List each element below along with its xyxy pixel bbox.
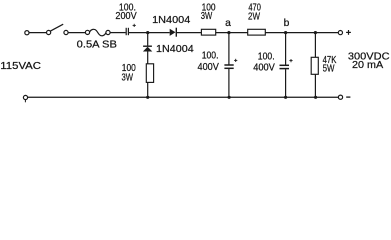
wire top rail segment: D1 to resistor R1 — [177, 32, 202, 34]
capacitor C3 polarity plus mark — [289, 59, 292, 62]
switch S1 blade — [50, 24, 63, 31]
node junction bottom of a branch — [228, 96, 231, 99]
node a junction dot — [227, 31, 230, 34]
node junction bottom of 47K branch — [314, 96, 317, 99]
wire node b branch upper — [285, 33, 287, 65]
capacitor C1 left plate — [125, 28, 127, 35]
fuse F1 left contact — [85, 30, 89, 34]
wire shunt branch lower — [147, 83, 149, 98]
svg-text:2W: 2W — [248, 11, 260, 22]
wire top rail segment: C1 through junction to diode D1 — [129, 32, 170, 34]
diode D2 shunt triangle (points up) — [143, 47, 152, 52]
capacitor C1 polarity plus mark — [133, 24, 136, 27]
label - output polarity — [346, 96, 350, 98]
capacitor C3 bottom plate — [280, 68, 290, 70]
svg-text:3W: 3W — [122, 73, 134, 84]
stub below bottom input terminal — [24, 100, 26, 103]
wire bottom rail — [28, 96, 339, 98]
wire top rail segment: R1 to R2 through node a — [216, 32, 248, 34]
node b junction dot — [284, 31, 287, 34]
terminal AC input top (open circle) — [25, 31, 29, 35]
svg-text:115VAC: 115VAC — [0, 61, 41, 72]
wire top rail segment: fuse to capacitor C1 — [110, 32, 126, 34]
svg-text:1N4004: 1N4004 — [156, 44, 194, 55]
node junction top of 47K branch — [314, 31, 317, 34]
svg-text:100.: 100. — [258, 52, 275, 63]
capacitor C3 top plate — [280, 64, 290, 66]
svg-text:20 mA: 20 mA — [352, 60, 383, 71]
wire 47K branch upper — [314, 33, 316, 58]
switch S1 throw contact — [64, 30, 68, 34]
wire top rail segment: switch to fuse — [68, 32, 85, 34]
svg-text:400V: 400V — [253, 63, 275, 74]
wire node a branch lower — [228, 69, 230, 97]
svg-text:b: b — [284, 18, 290, 29]
diode D1 cathode bar — [175, 28, 177, 37]
terminal + output (open circle) — [338, 30, 342, 34]
fuse F1 element (s-curve) — [90, 29, 106, 35]
svg-text:400V: 400V — [198, 62, 220, 73]
capacitor C2 bottom plate — [224, 67, 233, 69]
switch S1 pole contact — [47, 30, 51, 34]
svg-text:3W: 3W — [201, 11, 213, 22]
wire node b branch lower — [285, 69, 287, 97]
wire 47K branch lower — [314, 74, 316, 97]
wire shunt branch upper — [147, 33, 149, 46]
svg-text:0.5A SB: 0.5A SB — [77, 40, 117, 51]
svg-text:a: a — [225, 18, 231, 29]
resistor R1 100 3W (series box) — [201, 29, 215, 35]
capacitor C1 right plate — [127, 28, 129, 35]
svg-text:200V: 200V — [115, 11, 136, 22]
node junction top of shunt branch — [146, 31, 149, 34]
wire top rail segment: R2 to + output terminal — [265, 32, 338, 34]
wire node a branch upper — [228, 33, 230, 65]
terminal AC input bottom (open circle) — [23, 95, 27, 99]
diode D2 1N4004 shunt cathode bar — [143, 45, 152, 47]
node junction bottom of shunt branch — [146, 96, 149, 99]
svg-text:100.: 100. — [202, 51, 219, 62]
label + output polarity — [346, 30, 351, 35]
diode D1 1N4004 series triangle — [170, 29, 176, 36]
wire shunt branch middle — [147, 52, 149, 65]
wire top rail segment: input terminal to switch — [29, 32, 46, 34]
resistor R3 100 3W (shunt, vertical box) — [146, 64, 153, 83]
resistor R4 47K 5W (vertical box) — [311, 57, 318, 74]
fuse F1 right contact — [106, 30, 110, 34]
terminal - output (open circle) — [338, 95, 342, 99]
node junction bottom of b branch — [284, 96, 287, 99]
svg-text:5W: 5W — [323, 64, 335, 75]
resistor R2 470 2W (series box) — [248, 29, 266, 35]
svg-text:1N4004: 1N4004 — [152, 15, 190, 26]
capacitor C2 polarity plus mark — [234, 59, 237, 62]
capacitor C2 top plate — [224, 64, 233, 66]
